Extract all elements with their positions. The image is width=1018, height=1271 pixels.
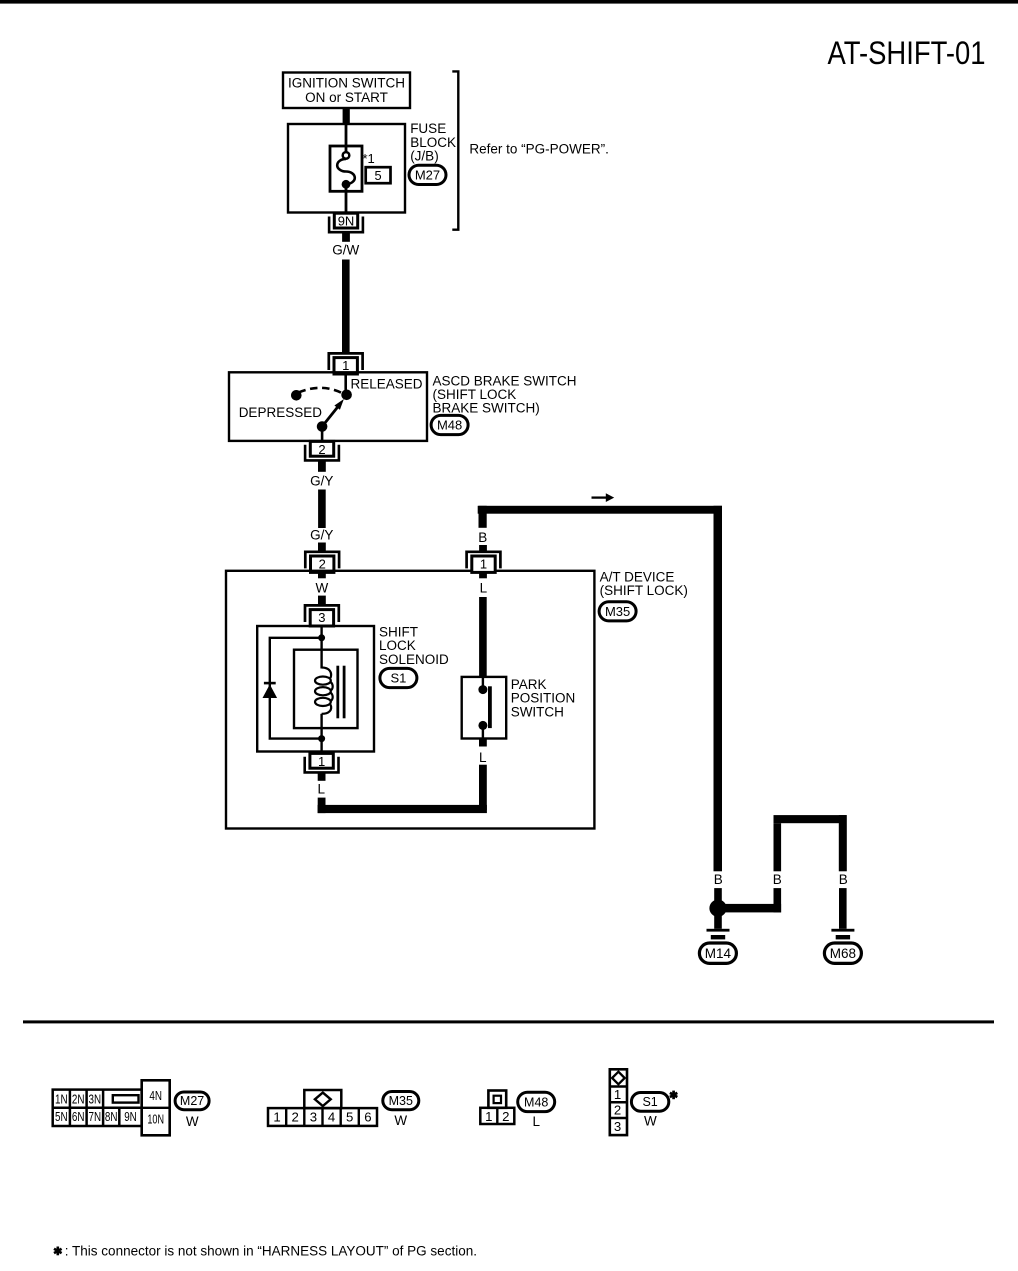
junction node grounds bbox=[709, 900, 726, 917]
connector code M35 (A/T device) bbox=[599, 602, 636, 621]
svg-text:9N: 9N bbox=[124, 1109, 137, 1124]
ground code M14 bbox=[699, 943, 736, 963]
svg-text:W: W bbox=[394, 1113, 407, 1128]
svg-text:L: L bbox=[479, 750, 487, 765]
svg-text:M35: M35 bbox=[389, 1094, 413, 1108]
connector code S1 (solenoid) bbox=[380, 668, 417, 687]
fuse label *1 bbox=[363, 151, 375, 166]
ground M14 bbox=[707, 929, 730, 945]
wire label G/W bbox=[332, 242, 359, 257]
svg-text:G/W: G/W bbox=[332, 242, 359, 257]
connector pinout M27 bbox=[53, 1080, 170, 1135]
svg-text:Refer to “PG-POWER”.: Refer to “PG-POWER”. bbox=[469, 142, 609, 157]
svg-text:7N: 7N bbox=[89, 1109, 102, 1124]
svg-text:S1: S1 bbox=[642, 1095, 657, 1109]
svg-text:5: 5 bbox=[346, 1109, 353, 1124]
note Refer to PG-POWER bbox=[469, 142, 609, 157]
solenoid coil box bbox=[294, 650, 358, 728]
svg-text:W: W bbox=[316, 580, 329, 595]
ground M68 bbox=[831, 929, 854, 945]
park position switch box bbox=[462, 677, 507, 739]
wire G/Y segment bbox=[318, 490, 326, 529]
svg-text:M35: M35 bbox=[605, 604, 630, 619]
svg-text:G/Y: G/Y bbox=[310, 527, 333, 542]
title AT-SHIFT-01 bbox=[828, 35, 986, 71]
svg-text:M48: M48 bbox=[437, 418, 462, 433]
wire label W bbox=[316, 580, 329, 595]
solenoid core lines bbox=[338, 666, 344, 719]
svg-text:SOLENOID: SOLENOID bbox=[379, 652, 449, 667]
connector terminal 1 (M35) bbox=[467, 552, 501, 573]
svg-text:1: 1 bbox=[318, 754, 325, 769]
direction arrow bbox=[592, 493, 615, 502]
svg-text:L: L bbox=[318, 781, 326, 796]
junction node solenoid top bbox=[318, 625, 325, 651]
A/T device label bbox=[600, 569, 688, 598]
connector terminal 2 (M35) bbox=[305, 552, 339, 573]
svg-text:1: 1 bbox=[273, 1109, 280, 1124]
svg-text:W: W bbox=[186, 1114, 199, 1129]
svg-text:M27: M27 bbox=[180, 1094, 204, 1108]
diode branch wire bbox=[270, 638, 322, 739]
wire label B (M68) bbox=[839, 872, 848, 887]
svg-text:AT-SHIFT-01: AT-SHIFT-01 bbox=[828, 35, 986, 71]
wire branch to M68 bbox=[718, 815, 847, 929]
dashed switch travel arc bbox=[299, 388, 342, 393]
wire label B (branch) bbox=[773, 872, 782, 887]
svg-text:2: 2 bbox=[319, 557, 326, 572]
connector pinout M48 bbox=[480, 1091, 514, 1125]
wire stub below A/T terminal 2 bbox=[318, 572, 326, 579]
svg-text:1: 1 bbox=[342, 358, 349, 373]
connector terminal 2 (M48) bbox=[305, 441, 339, 460]
wire stub below solenoid terminal 1 bbox=[318, 773, 326, 781]
svg-text:B: B bbox=[714, 872, 723, 887]
fuse block J/B box bbox=[288, 124, 405, 213]
svg-text:1N: 1N bbox=[55, 1092, 68, 1107]
svg-text:(J/B): (J/B) bbox=[410, 149, 439, 164]
wire B horizontal bbox=[478, 506, 722, 514]
wire stub below 9N bbox=[342, 233, 350, 242]
svg-text:10N: 10N bbox=[147, 1112, 164, 1127]
solenoid coil winding bbox=[315, 651, 333, 741]
wire B elbow bbox=[479, 506, 487, 528]
connector terminal 9N bbox=[329, 213, 363, 232]
ground code M68 bbox=[824, 943, 861, 963]
svg-text:M48: M48 bbox=[524, 1095, 548, 1109]
connector terminal 1 (S1) bbox=[305, 753, 339, 772]
label DEPRESSED bbox=[239, 405, 323, 420]
svg-text:5N: 5N bbox=[55, 1109, 68, 1124]
svg-text:6: 6 bbox=[364, 1109, 371, 1124]
footnote bbox=[54, 1243, 477, 1258]
svg-text:2: 2 bbox=[318, 442, 325, 457]
connector terminal 3 (S1) bbox=[305, 605, 339, 626]
park position switch label bbox=[511, 677, 576, 719]
connector pinout M35 bbox=[268, 1090, 377, 1126]
shift lock solenoid box bbox=[257, 626, 374, 752]
svg-text:2: 2 bbox=[614, 1103, 621, 1118]
connector pinout S1 bbox=[610, 1069, 627, 1135]
svg-text:8N: 8N bbox=[105, 1109, 118, 1124]
fuse 5 (*1) symbol bbox=[330, 124, 362, 213]
ASCD brake switch box bbox=[229, 372, 427, 441]
svg-text:B: B bbox=[478, 530, 487, 545]
svg-text:L: L bbox=[480, 580, 488, 595]
svg-text:3N: 3N bbox=[89, 1092, 102, 1107]
svg-text:*1: *1 bbox=[363, 151, 375, 166]
svg-text:M27: M27 bbox=[415, 168, 440, 183]
wire stub above solenoid terminal 3 bbox=[318, 596, 326, 605]
svg-text:W: W bbox=[644, 1114, 657, 1129]
svg-text:M68: M68 bbox=[830, 946, 856, 961]
wire label L (A/T terminal 1) bbox=[480, 580, 488, 595]
wire label G/Y lower bbox=[310, 527, 333, 542]
svg-text:L: L bbox=[532, 1114, 540, 1129]
wire stub below terminal 2 bbox=[318, 461, 326, 472]
separator line bbox=[23, 1020, 994, 1023]
wire B right vertical bbox=[714, 506, 723, 872]
svg-text:1: 1 bbox=[480, 557, 487, 572]
svg-text:B: B bbox=[839, 872, 848, 887]
wire stub above A/T terminal 1 bbox=[479, 545, 487, 552]
wire L to park switch bbox=[479, 597, 487, 678]
svg-text:2: 2 bbox=[502, 1109, 509, 1124]
fuse number box 5 bbox=[366, 167, 391, 183]
svg-text:: This connector is not shown: : This connector is not shown in “HARNES… bbox=[65, 1243, 477, 1258]
svg-text:SWITCH: SWITCH bbox=[511, 704, 564, 719]
shift lock solenoid label bbox=[379, 625, 449, 667]
svg-text:3: 3 bbox=[310, 1109, 317, 1124]
wire L bottom run bbox=[318, 765, 487, 813]
connector terminal 1 (M48) bbox=[329, 353, 363, 374]
svg-text:ON or START: ON or START bbox=[305, 90, 388, 105]
svg-text:1: 1 bbox=[614, 1087, 621, 1102]
svg-text:9N: 9N bbox=[338, 214, 355, 229]
wire stub above junction bbox=[714, 888, 722, 900]
svg-text:5: 5 bbox=[374, 168, 381, 183]
svg-text:4N: 4N bbox=[149, 1088, 162, 1103]
svg-text:1: 1 bbox=[485, 1109, 492, 1124]
svg-text:4: 4 bbox=[328, 1109, 335, 1124]
label RELEASED bbox=[351, 377, 423, 392]
wire label B (M14) bbox=[714, 872, 723, 887]
connector pinout code M35 bbox=[383, 1092, 419, 1129]
wire stub above A/T terminal 2 bbox=[318, 543, 326, 552]
svg-text:BRAKE SWITCH): BRAKE SWITCH) bbox=[433, 400, 540, 415]
svg-text:B: B bbox=[773, 872, 782, 887]
svg-text:(SHIFT LOCK): (SHIFT LOCK) bbox=[600, 583, 688, 598]
svg-text:DEPRESSED: DEPRESSED bbox=[239, 405, 323, 420]
svg-text:2: 2 bbox=[292, 1109, 299, 1124]
wire label L (solenoid) bbox=[318, 781, 326, 796]
connector pinout code S1 bbox=[631, 1091, 677, 1129]
svg-text:6N: 6N bbox=[72, 1109, 85, 1124]
wire label G/Y upper bbox=[310, 473, 333, 488]
connector pinout code M27 bbox=[175, 1092, 209, 1129]
junction node solenoid bottom bbox=[318, 735, 325, 753]
svg-text:M14: M14 bbox=[705, 946, 732, 961]
park position switch contacts bbox=[478, 677, 491, 739]
svg-text:3: 3 bbox=[318, 610, 325, 625]
wire label B (A/T) bbox=[478, 530, 487, 545]
fuse block label FUSE BLOCK (J/B) bbox=[410, 121, 456, 163]
connector code M27 (fuse block) bbox=[409, 165, 446, 184]
reference bracket bbox=[452, 71, 458, 229]
svg-text:S1: S1 bbox=[390, 671, 406, 686]
svg-text:IGNITION SWITCH: IGNITION SWITCH bbox=[288, 76, 405, 91]
diode bbox=[263, 683, 278, 698]
A/T device box bbox=[226, 571, 594, 829]
connector code M48 (brake switch) bbox=[431, 415, 468, 434]
released contact with wire bbox=[341, 373, 352, 400]
wire stub below junction bbox=[714, 916, 722, 929]
lower contact with wire bbox=[317, 421, 328, 441]
ASCD brake switch label bbox=[433, 373, 577, 415]
wire label L (park switch) bbox=[479, 750, 487, 765]
top border bar bbox=[0, 0, 1018, 4]
wire ignition switch to fuse block bbox=[343, 108, 350, 124]
depressed contact bbox=[291, 390, 302, 401]
wire G/W segment bbox=[342, 260, 350, 353]
wire stub below park switch bbox=[479, 739, 487, 747]
svg-text:3: 3 bbox=[614, 1119, 621, 1134]
svg-text:2N: 2N bbox=[72, 1092, 85, 1107]
wire stub below A/T terminal 1 bbox=[479, 572, 487, 579]
ignition switch ON or START block bbox=[283, 73, 410, 109]
connector pinout code M48 bbox=[518, 1092, 555, 1129]
svg-text:RELEASED: RELEASED bbox=[351, 377, 423, 392]
svg-text:G/Y: G/Y bbox=[310, 473, 333, 488]
switch arm arrow bbox=[322, 399, 344, 427]
